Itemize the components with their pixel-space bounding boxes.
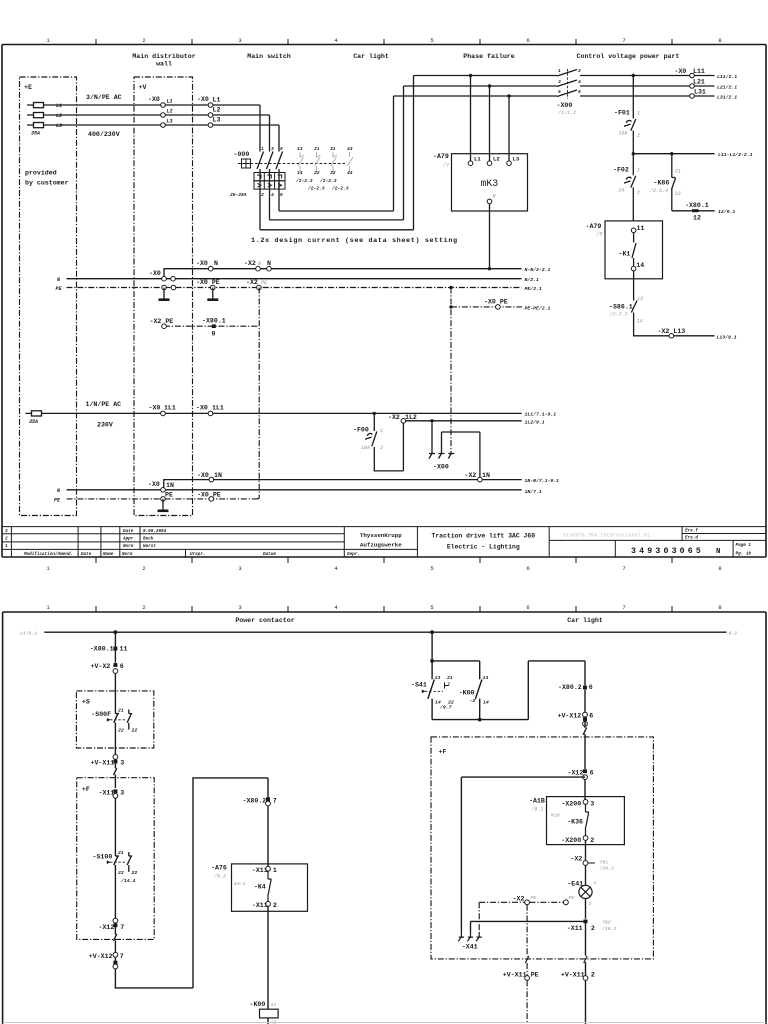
- svg-text:Standfa TKA International 01: Standfa TKA International 01: [563, 533, 650, 539]
- svg-text:L31/2.1: L31/2.1: [717, 95, 737, 101]
- svg-text:/5: /5: [596, 232, 603, 238]
- svg-text:3: 3: [558, 79, 561, 85]
- svg-text:1: 1: [380, 428, 383, 434]
- svg-text:5: 5: [430, 604, 433, 611]
- svg-text:2: 2: [142, 604, 145, 611]
- svg-text:-X200: -X200: [561, 837, 581, 844]
- svg-text:-X80.1: -X80.1: [685, 202, 709, 209]
- svg-text:PE: PE: [531, 972, 539, 979]
- svg-text:+V-X12: +V-X12: [558, 713, 582, 720]
- svg-text:+V-X11: +V-X11: [91, 760, 115, 767]
- svg-text:-S86.1: -S86.1: [609, 304, 633, 311]
- svg-text:21: 21: [447, 675, 453, 681]
- svg-text:-K36: -K36: [567, 819, 583, 826]
- svg-text:Car light: Car light: [567, 617, 603, 624]
- svg-text:701: 701: [600, 860, 609, 866]
- svg-text:Gepr.: Gepr.: [347, 552, 360, 557]
- svg-text:+V-X2: +V-X2: [91, 663, 111, 670]
- svg-text:-X0 PE: -X0 PE: [484, 298, 508, 305]
- svg-text:PE: PE: [569, 895, 575, 901]
- svg-text:3: 3: [120, 760, 124, 767]
- svg-text:-X12: -X12: [568, 770, 584, 777]
- svg-text:/2-2.3: /2-2.3: [307, 186, 325, 192]
- svg-text:Ers.d: Ers.d: [685, 536, 698, 541]
- svg-text:2: 2: [591, 925, 595, 932]
- svg-text:+V-X12: +V-X12: [89, 953, 113, 960]
- svg-text:3: 3: [238, 604, 241, 611]
- svg-text:2: 2: [142, 37, 145, 44]
- svg-text:PE/2.1: PE/2.1: [525, 286, 542, 292]
- svg-text:32: 32: [330, 170, 336, 176]
- svg-text:-X2: -X2: [465, 472, 477, 479]
- svg-text:9: 9: [212, 331, 216, 338]
- svg-text:2A: 2A: [619, 188, 625, 194]
- svg-text:L13/9.1: L13/9.1: [717, 334, 737, 340]
- svg-text:3: 3: [238, 565, 241, 572]
- svg-text:+V: +V: [139, 84, 147, 91]
- svg-text:-X80.1: -X80.1: [202, 318, 226, 325]
- svg-text:22: 22: [118, 728, 124, 734]
- svg-text:14: 14: [297, 170, 303, 176]
- svg-text:L2: L2: [213, 107, 221, 114]
- svg-text:-F00: -F00: [353, 427, 369, 434]
- svg-text:2: 2: [637, 190, 640, 196]
- svg-text:-000: -000: [234, 151, 250, 158]
- svg-text:35A: 35A: [31, 131, 40, 137]
- svg-text:20-25A: 20-25A: [230, 192, 247, 198]
- svg-text:8: 8: [718, 37, 721, 44]
- svg-text:-X0: -X0: [675, 68, 687, 75]
- svg-text:5: 5: [558, 89, 561, 95]
- svg-text:5: 5: [430, 565, 433, 572]
- svg-text:-X00: -X00: [433, 464, 449, 471]
- svg-text:-X0: -X0: [197, 96, 209, 103]
- svg-text:-X2: -X2: [388, 414, 400, 421]
- svg-text:L1: L1: [213, 97, 221, 104]
- svg-text:-K00: -K00: [250, 1001, 266, 1008]
- svg-text:2: 2: [591, 972, 595, 979]
- svg-text:ThyssenKrupp: ThyssenKrupp: [360, 532, 402, 539]
- svg-text:22: 22: [118, 870, 124, 876]
- svg-text:43: 43: [347, 146, 353, 152]
- svg-text:L1: L1: [167, 99, 173, 105]
- svg-text:1N: 1N: [482, 472, 490, 479]
- svg-text:-X2: -X2: [571, 856, 583, 863]
- svg-text:/10.2: /10.2: [601, 926, 617, 932]
- svg-text:Power contactor: Power contactor: [235, 617, 294, 624]
- svg-text:N: N: [214, 260, 218, 267]
- svg-text:-X80.2: -X80.2: [558, 684, 582, 691]
- svg-text:-X41: -X41: [462, 944, 478, 951]
- svg-text:1: 1: [5, 544, 8, 549]
- svg-text:2: 2: [589, 901, 592, 907]
- svg-text:22: 22: [314, 170, 320, 176]
- svg-text:-X200: -X200: [561, 801, 581, 808]
- svg-text:14: 14: [483, 700, 489, 706]
- svg-text:6: 6: [526, 37, 529, 44]
- svg-text:-A79: -A79: [433, 153, 449, 160]
- svg-text:-S100: -S100: [93, 854, 113, 861]
- svg-text:/2-2.3: /2-2.3: [319, 178, 337, 184]
- svg-text:Traction drive lift 3AC J60: Traction drive lift 3AC J60: [432, 533, 536, 540]
- svg-text:3: 3: [271, 146, 274, 152]
- svg-text:1L1/7.1-9.1: 1L1/7.1-9.1: [525, 412, 557, 418]
- svg-text:44: 44: [347, 170, 353, 176]
- svg-text:13: 13: [637, 296, 643, 302]
- svg-text:14: 14: [637, 319, 643, 325]
- svg-text:-X11: -X11: [567, 925, 583, 932]
- svg-text:10A: 10A: [361, 445, 370, 451]
- svg-text:7: 7: [622, 604, 625, 611]
- svg-text:-F01: -F01: [614, 110, 630, 117]
- svg-text:702: 702: [602, 920, 611, 926]
- svg-text:/9.7: /9.7: [439, 705, 452, 711]
- svg-text:+F: +F: [82, 786, 90, 793]
- svg-text:31: 31: [330, 146, 336, 152]
- svg-text:-X0: -X0: [149, 270, 161, 277]
- svg-text:1N/7.1: 1N/7.1: [525, 489, 542, 495]
- svg-text:Datum: Datum: [263, 552, 276, 557]
- svg-text:Main distributor: Main distributor: [132, 53, 195, 60]
- svg-text:1/N/PE AC: 1/N/PE AC: [86, 401, 122, 408]
- svg-text:PE: PE: [261, 280, 268, 286]
- svg-text:-X0: -X0: [196, 405, 208, 412]
- svg-text:Norm: Norm: [123, 544, 134, 549]
- svg-text:L21/2.1: L21/2.1: [717, 85, 737, 91]
- svg-text:1: 1: [558, 68, 561, 74]
- svg-text:K4-1: K4-1: [234, 881, 246, 887]
- svg-text:2: 2: [578, 68, 581, 74]
- svg-text:1: 1: [261, 146, 264, 152]
- svg-text:6: 6: [590, 770, 594, 777]
- svg-text:L2: L2: [167, 109, 173, 115]
- svg-text:2: 2: [142, 565, 145, 572]
- svg-text:7: 7: [120, 924, 124, 931]
- svg-text:N/2.1: N/2.1: [525, 277, 540, 283]
- svg-text:1N: 1N: [166, 482, 174, 489]
- svg-text:Main switch: Main switch: [247, 53, 291, 60]
- svg-text:3: 3: [120, 790, 124, 797]
- svg-text:7: 7: [120, 953, 124, 960]
- svg-text:wall: wall: [156, 61, 172, 68]
- svg-text:-X0: -X0: [196, 260, 208, 267]
- svg-text:13: 13: [297, 146, 303, 152]
- svg-text:11: 11: [120, 646, 128, 653]
- svg-text:/6.1: /6.1: [531, 807, 544, 813]
- svg-text:7: 7: [622, 37, 625, 44]
- svg-text:22: 22: [132, 728, 138, 734]
- svg-text:22: 22: [675, 191, 681, 197]
- svg-text:11: 11: [637, 225, 645, 232]
- svg-text:1L1: 1L1: [164, 405, 176, 412]
- svg-text:Phase failure: Phase failure: [463, 53, 514, 60]
- svg-text:-X80.1: -X80.1: [90, 646, 114, 653]
- svg-text:/6.2: /6.2: [213, 874, 226, 880]
- svg-text:1: 1: [583, 857, 586, 863]
- svg-text:-K1: -K1: [619, 251, 631, 258]
- svg-text:3: 3: [5, 529, 8, 534]
- svg-text:Date: Date: [123, 529, 134, 534]
- svg-text:PE: PE: [531, 895, 537, 901]
- svg-text:6: 6: [578, 89, 581, 95]
- svg-text:-A79: -A79: [586, 223, 602, 230]
- svg-text:35A: 35A: [29, 419, 38, 425]
- svg-text:L2: L2: [56, 113, 62, 119]
- svg-text:5: 5: [280, 146, 283, 152]
- svg-text:L1: L1: [474, 156, 481, 163]
- svg-text:13: 13: [483, 675, 489, 681]
- svg-text:21: 21: [675, 169, 681, 175]
- svg-text:A2: A2: [270, 1020, 277, 1024]
- svg-text:/7: /7: [442, 163, 450, 169]
- svg-text:-X0: -X0: [197, 472, 209, 479]
- svg-text:Car light: Car light: [353, 53, 389, 60]
- svg-text:8.09.2004: 8.09.2004: [143, 529, 167, 534]
- svg-text:3/N/PE AC: 3/N/PE AC: [86, 94, 122, 101]
- svg-text:-X11: -X11: [252, 902, 268, 909]
- svg-text:Appr: Appr: [122, 537, 134, 542]
- svg-text:-2: -2: [470, 698, 476, 704]
- svg-text:Page 1: Page 1: [736, 543, 752, 548]
- svg-text:+V-X11: +V-X11: [503, 972, 527, 979]
- svg-text:-A76: -A76: [211, 865, 227, 872]
- svg-text:-K86: -K86: [654, 180, 670, 187]
- svg-text:-X2 PE: -X2 PE: [150, 318, 174, 325]
- svg-text:N: N: [267, 260, 271, 267]
- svg-text:provided: provided: [25, 170, 57, 177]
- svg-text:10A: 10A: [619, 131, 628, 137]
- svg-text:-S00F: -S00F: [91, 711, 111, 718]
- svg-text:by customer: by customer: [25, 180, 69, 187]
- svg-text:Control voltage power part: Control voltage power part: [577, 53, 680, 60]
- svg-text:-X0: -X0: [149, 405, 161, 412]
- svg-text:-X2: -X2: [246, 279, 258, 286]
- svg-text:Modification/Amend.: Modification/Amend.: [23, 552, 73, 557]
- svg-text:L3: L3: [513, 156, 520, 163]
- svg-text:6: 6: [280, 192, 283, 198]
- svg-text:Aufzugswerke: Aufzugswerke: [360, 541, 402, 548]
- svg-text:3: 3: [590, 801, 594, 808]
- svg-text:Norm: Norm: [122, 552, 133, 557]
- svg-text:Wurst: Wurst: [143, 544, 156, 549]
- svg-text:6: 6: [589, 684, 593, 691]
- svg-text:/1-1.2: /1-1.2: [557, 110, 576, 116]
- svg-text:2: 2: [273, 902, 277, 909]
- svg-text:-E41: -E41: [567, 881, 583, 888]
- svg-text:2: 2: [261, 192, 264, 198]
- svg-text:PE: PE: [56, 286, 63, 292]
- svg-text:/7-7.7: /7-7.7: [609, 312, 629, 318]
- svg-text:-K4: -K4: [254, 884, 266, 891]
- svg-text:1.2x design current (see data: 1.2x design current (see data sheet) set…: [251, 237, 458, 245]
- svg-text:A1: A1: [270, 1002, 277, 1008]
- svg-text:Date: Date: [81, 552, 92, 557]
- svg-text:L3: L3: [167, 119, 173, 125]
- svg-text:L21: L21: [693, 79, 705, 86]
- svg-text:L11: L11: [693, 68, 705, 75]
- svg-text:4: 4: [271, 192, 274, 198]
- svg-text:6: 6: [589, 713, 593, 720]
- svg-text:K20: K20: [551, 813, 560, 819]
- svg-text:12: 12: [693, 215, 701, 222]
- svg-text:-X2: -X2: [244, 260, 256, 267]
- svg-text:8: 8: [718, 565, 721, 572]
- svg-text:230V: 230V: [97, 422, 113, 429]
- svg-text:4: 4: [578, 79, 581, 85]
- svg-text:8: 8: [718, 604, 721, 611]
- svg-text:1: 1: [637, 111, 640, 117]
- svg-text:2: 2: [5, 537, 8, 542]
- svg-text:1L2/9.1: 1L2/9.1: [525, 419, 545, 425]
- svg-text:N: N: [716, 548, 720, 556]
- svg-text:/2-2.4: /2-2.4: [649, 188, 668, 194]
- svg-text:7: 7: [622, 565, 625, 572]
- svg-text:6: 6: [526, 604, 529, 611]
- svg-text:12/9.1: 12/9.1: [718, 209, 735, 215]
- svg-text:2: 2: [637, 133, 640, 139]
- svg-text:400/230V: 400/230V: [88, 131, 120, 138]
- svg-text:6: 6: [120, 663, 124, 670]
- svg-text:/10.2: /10.2: [599, 866, 615, 872]
- svg-text:L11-L1/2-2.1: L11-L1/2-2.1: [718, 152, 753, 158]
- svg-text:-X0: -X0: [148, 481, 160, 488]
- svg-text:mK3: mK3: [481, 178, 499, 189]
- svg-text:L3: L3: [56, 123, 62, 129]
- svg-text:7: 7: [273, 797, 277, 804]
- svg-text:-F02: -F02: [613, 167, 629, 174]
- svg-text:21: 21: [118, 708, 124, 714]
- svg-text:1: 1: [594, 880, 597, 886]
- svg-text:1L1: 1L1: [212, 405, 224, 412]
- svg-text:-X11: -X11: [252, 867, 268, 874]
- svg-text:21: 21: [314, 146, 320, 152]
- svg-text:Electric - Lighting: Electric - Lighting: [447, 544, 520, 551]
- svg-text:L2: L2: [493, 156, 500, 163]
- svg-text:8.2: 8.2: [729, 631, 738, 637]
- svg-text:2: 2: [380, 445, 383, 451]
- svg-text:21: 21: [118, 850, 124, 856]
- svg-text:349303065: 349303065: [631, 547, 704, 556]
- svg-text:-X0: -X0: [148, 96, 160, 103]
- svg-text:11/8.1: 11/8.1: [20, 631, 37, 637]
- svg-text:PE: PE: [54, 498, 61, 504]
- svg-text:-S41: -S41: [411, 682, 427, 689]
- svg-text:-X80.2: -X80.2: [243, 797, 267, 804]
- svg-text:L3: L3: [213, 117, 221, 124]
- svg-text:L11/2.1: L11/2.1: [717, 74, 737, 80]
- svg-text:/2-2.3: /2-2.3: [295, 178, 313, 184]
- svg-text:Ers.f: Ers.f: [685, 529, 698, 534]
- svg-text:13: 13: [435, 675, 441, 681]
- svg-text:1N: 1N: [214, 472, 222, 479]
- svg-text:1: 1: [637, 168, 640, 174]
- svg-text:6: 6: [526, 565, 529, 572]
- svg-text:PE: PE: [165, 492, 173, 499]
- svg-text:Beck: Beck: [143, 537, 154, 542]
- svg-text:-A1B: -A1B: [529, 798, 545, 805]
- svg-text:-X0 PE: -X0 PE: [196, 279, 220, 286]
- svg-text:1L2: 1L2: [405, 414, 417, 421]
- svg-text:5: 5: [430, 37, 433, 44]
- svg-text:L31: L31: [694, 89, 706, 96]
- svg-text:L1: L1: [56, 103, 62, 109]
- svg-text:-K00: -K00: [459, 690, 475, 697]
- svg-text:-X12: -X12: [99, 924, 115, 931]
- svg-text:-X0 PE: -X0 PE: [197, 492, 221, 499]
- svg-text:-X2: -X2: [513, 896, 525, 903]
- svg-text:/2-2.3: /2-2.3: [331, 186, 349, 192]
- svg-text:Pg. 10: Pg. 10: [736, 552, 752, 557]
- svg-text:+E: +E: [24, 84, 32, 91]
- svg-text:14: 14: [636, 262, 644, 269]
- svg-text:/14.4: /14.4: [120, 878, 136, 884]
- svg-text:-X11: -X11: [99, 790, 115, 797]
- svg-text:N-N/2-2.1: N-N/2-2.1: [525, 267, 551, 273]
- svg-text:22: 22: [132, 870, 138, 876]
- svg-text:+V-X11: +V-X11: [561, 972, 585, 979]
- svg-text:Urspr.: Urspr.: [190, 552, 205, 557]
- svg-text:+S: +S: [82, 699, 90, 706]
- svg-text:-X00: -X00: [557, 102, 573, 109]
- svg-text:3: 3: [238, 37, 241, 44]
- svg-text:Name: Name: [103, 552, 114, 557]
- svg-text:1: 1: [273, 867, 277, 874]
- svg-text:PE-PE/2.1: PE-PE/2.1: [525, 305, 551, 311]
- svg-text:1N-N/7.1-9.1: 1N-N/7.1-9.1: [525, 478, 560, 484]
- svg-text:2: 2: [590, 837, 594, 844]
- svg-text:-X2 L13: -X2 L13: [658, 328, 686, 335]
- svg-text:+F: +F: [439, 749, 447, 756]
